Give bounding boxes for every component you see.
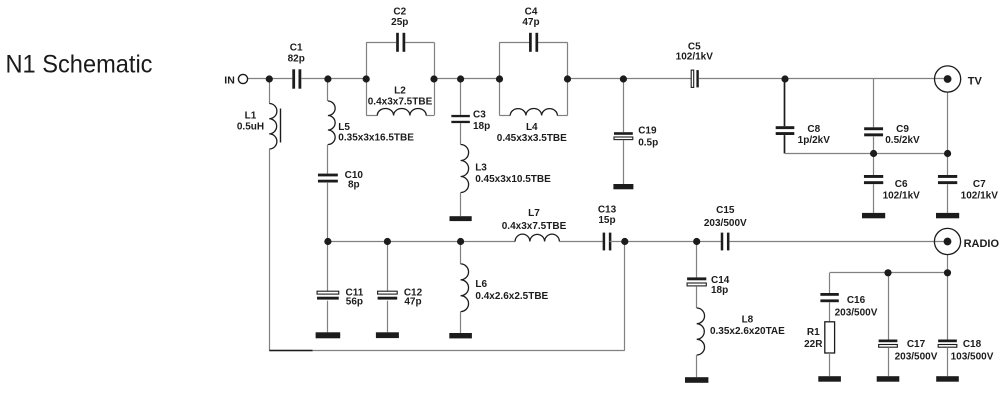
- inductor L1: [269, 104, 280, 150]
- capacitor C9: [864, 127, 883, 130]
- wire C13 to C15: [610, 241, 721, 243]
- svg-text:0.45x3x10.5TBE: 0.45x3x10.5TBE: [475, 174, 551, 185]
- svg-text:C9: C9: [896, 124, 909, 135]
- ground C3/L3: [450, 216, 472, 221]
- svg-text:C15: C15: [716, 205, 735, 216]
- junction box2 left: [496, 75, 503, 82]
- capacitor C6: [864, 175, 883, 178]
- svg-text:18p: 18p: [711, 285, 728, 296]
- svg-text:C8: C8: [807, 124, 820, 135]
- wire C9 bottom lead: [873, 137, 875, 154]
- wire C5 to TV: [699, 78, 948, 80]
- capacitor C12: [378, 291, 398, 294]
- capacitor C4: [529, 33, 532, 52]
- ground C17: [877, 376, 900, 382]
- junction TV/C7: [944, 150, 951, 157]
- junction C3/rail: [457, 75, 464, 82]
- wire rail to box1: [328, 78, 366, 80]
- wire R1 to ground: [829, 353, 831, 376]
- inductor L8: [697, 308, 705, 355]
- svg-text:25p: 25p: [391, 17, 408, 28]
- wire C6 to ground: [873, 184, 875, 213]
- svg-text:47p: 47p: [404, 297, 421, 308]
- svg-text:L5: L5: [338, 122, 350, 133]
- svg-text:0.5uH: 0.5uH: [237, 122, 264, 133]
- wire C19 to ground: [623, 140, 625, 184]
- wire C10 to radio rail: [327, 183, 329, 242]
- wire C3 top lead: [460, 79, 462, 115]
- svg-text:N1 Schematic: N1 Schematic: [6, 50, 153, 78]
- svg-text:C16: C16: [847, 295, 866, 306]
- wire L6 to ground: [460, 312, 462, 333]
- ground R1: [818, 376, 841, 382]
- junction box1 left: [363, 75, 370, 82]
- svg-text:0.4x3x7.5TBE: 0.4x3x7.5TBE: [502, 221, 567, 232]
- capacitor C16: [820, 293, 838, 296]
- junction C12/rail: [384, 238, 391, 245]
- junction C9/C6: [870, 150, 877, 157]
- wire C12 to ground: [387, 301, 389, 333]
- wire C16 top lead: [829, 273, 831, 293]
- capacitor C10: [318, 174, 338, 177]
- junction C14/rail: [693, 238, 700, 245]
- wire C9 top lead: [873, 79, 875, 127]
- junction sub-net/C17: [884, 269, 891, 276]
- ground L6: [449, 333, 472, 338]
- wire bottom loop horizontal: [269, 350, 625, 352]
- svg-text:L7: L7: [528, 208, 540, 219]
- svg-text:102/1kV: 102/1kV: [883, 191, 921, 202]
- junction L1/rail: [266, 75, 273, 82]
- wire L6 top lead: [460, 242, 462, 264]
- svg-text:56p: 56p: [346, 297, 363, 308]
- wire C11 to ground: [327, 301, 329, 333]
- junction C19/rail: [620, 75, 627, 82]
- wire C14 top lead: [696, 242, 698, 278]
- tank frame L2/C2: [366, 42, 434, 115]
- svg-text:22R: 22R: [804, 339, 823, 350]
- svg-text:C3: C3: [473, 110, 486, 121]
- capacitor C11: [317, 291, 339, 294]
- capacitor C19: [614, 132, 633, 135]
- svg-text:L4: L4: [526, 122, 538, 133]
- svg-text:C19: C19: [638, 126, 657, 137]
- capacitor C14: [687, 277, 706, 280]
- svg-text:15p: 15p: [598, 215, 615, 226]
- wire C7 top lead: [947, 154, 949, 176]
- svg-text:82p: 82p: [288, 54, 305, 65]
- svg-text:0.35x3x16.5TBE: 0.35x3x16.5TBE: [338, 133, 414, 144]
- wire C1 to L5 node: [301, 78, 328, 80]
- terminal IN: [238, 74, 247, 83]
- wire C3 to L3: [460, 123, 462, 144]
- svg-text:TV: TV: [968, 75, 983, 87]
- terminal TV: [935, 66, 961, 92]
- wire radio sub-net: [830, 272, 948, 274]
- svg-text:0.4x3x7.5TBE: 0.4x3x7.5TBE: [368, 97, 433, 108]
- capacitor C2: [396, 33, 399, 52]
- svg-text:103/500V: 103/500V: [951, 351, 994, 362]
- wire C18 top lead: [947, 273, 949, 340]
- svg-text:102/1kV: 102/1kV: [676, 52, 714, 63]
- svg-text:L2: L2: [394, 86, 406, 97]
- wire bottom loop vertical: [624, 242, 626, 351]
- svg-text:C18: C18: [963, 339, 982, 350]
- ground C18: [936, 376, 959, 382]
- capacitor C17: [879, 340, 898, 343]
- svg-text:R1: R1: [807, 327, 820, 338]
- svg-text:102/1kV: 102/1kV: [961, 191, 999, 202]
- wire C17 top lead: [888, 273, 890, 340]
- junction C11/rail: [324, 238, 331, 245]
- tank frame C4/L4: [500, 42, 568, 115]
- wire C18 to ground: [947, 347, 949, 376]
- svg-text:C7: C7: [973, 179, 986, 190]
- junction box2 right: [564, 75, 571, 82]
- wire bottom loop dark segment: [269, 350, 312, 352]
- svg-text:0.35x2.6x20TAE: 0.35x2.6x20TAE: [710, 326, 785, 337]
- svg-text:C1: C1: [290, 42, 303, 53]
- svg-text:IN: IN: [224, 74, 235, 86]
- wire TV drop: [947, 92, 949, 153]
- svg-text:203/500V: 203/500V: [895, 351, 938, 362]
- capacitor C8: [776, 126, 795, 129]
- svg-text:C17: C17: [907, 339, 926, 350]
- wire C7 to ground: [947, 184, 949, 213]
- svg-text:0.4x2.6x2.5TBE: 0.4x2.6x2.5TBE: [475, 291, 548, 302]
- svg-text:L8: L8: [742, 315, 754, 326]
- resistor R1: [825, 322, 835, 353]
- wire box2 to C5: [568, 78, 692, 80]
- inductor L7: [515, 234, 559, 241]
- svg-text:0.5/2kV: 0.5/2kV: [885, 135, 920, 146]
- wire C19 top lead: [623, 79, 625, 132]
- svg-text:0.45x3x3.5TBE: 0.45x3x3.5TBE: [497, 133, 567, 144]
- svg-text:18p: 18p: [473, 121, 490, 132]
- svg-text:RADIO: RADIO: [964, 238, 1000, 250]
- wire C8 top lead: [784, 79, 786, 126]
- wire TV sub-net: [785, 153, 948, 155]
- wire RADIO drop: [947, 255, 949, 273]
- inductor L4: [510, 108, 557, 115]
- ground C7: [936, 213, 959, 218]
- wire C8 to corner: [784, 135, 786, 153]
- inductor L6: [461, 264, 469, 312]
- capacitor C7: [938, 175, 957, 178]
- svg-text:203/500V: 203/500V: [835, 307, 878, 318]
- inductor L2: [377, 108, 426, 115]
- capacitor C3: [451, 115, 470, 117]
- svg-text:L1: L1: [245, 111, 257, 122]
- svg-text:0.5p: 0.5p: [638, 138, 658, 149]
- wire L5 to C10: [327, 145, 329, 174]
- junction L6/rail: [457, 238, 464, 245]
- ground C11: [316, 332, 341, 338]
- wire L1 to bottom loop: [269, 149, 271, 350]
- wire IN to C1: [248, 78, 293, 80]
- capacitor C18: [938, 340, 957, 343]
- svg-text:203/500V: 203/500V: [704, 218, 747, 229]
- capacitor C13: [603, 233, 606, 251]
- wire C16 to R1: [829, 302, 831, 322]
- capacitor C15: [721, 233, 724, 251]
- wire radio rail left: [328, 241, 515, 243]
- ground C19: [613, 184, 633, 189]
- junction loop/rail: [621, 238, 628, 245]
- ground C6: [862, 213, 885, 218]
- wire L1 top lead: [269, 79, 271, 104]
- svg-text:1p/2kV: 1p/2kV: [798, 135, 831, 146]
- wire C14 to L8: [696, 286, 698, 308]
- wire L5 top lead: [327, 79, 329, 101]
- wire L8 to ground: [696, 355, 698, 377]
- wire C12 top lead: [387, 242, 389, 292]
- svg-text:8p: 8p: [348, 179, 360, 190]
- junction L5/rail: [324, 75, 331, 82]
- svg-text:L3: L3: [475, 163, 487, 174]
- wire L3 to ground: [460, 193, 462, 217]
- capacitor C5: [691, 70, 694, 87]
- wire C15 to RADIO: [729, 241, 947, 243]
- capacitor C1: [292, 69, 295, 88]
- svg-text:47p: 47p: [522, 17, 539, 28]
- inductor L5: [328, 101, 335, 145]
- junction C8/rail: [781, 75, 788, 82]
- junction sub-net/C18: [944, 269, 951, 276]
- ground C12: [376, 332, 399, 338]
- ground L8: [685, 377, 708, 383]
- inductor L3: [461, 145, 469, 193]
- svg-text:C13: C13: [598, 205, 617, 216]
- wire L7 to C13: [559, 241, 602, 243]
- svg-text:C6: C6: [895, 179, 908, 190]
- wire C11 top lead: [327, 242, 329, 292]
- terminal RADIO: [934, 228, 960, 254]
- wire box1 to C3 node: [434, 78, 500, 80]
- svg-text:L6: L6: [475, 279, 487, 290]
- junction box1 right: [430, 75, 437, 82]
- wire C6 top lead: [873, 154, 875, 176]
- wire C17 to ground: [888, 347, 890, 376]
- svg-text:C14: C14: [711, 275, 730, 286]
